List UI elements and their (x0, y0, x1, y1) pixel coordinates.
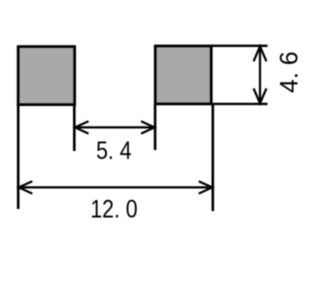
extension line, 4.6 top (from top edge of P2 right) (211, 45, 268, 47)
pad P2 (right land) (155, 46, 211, 104)
extension line, 5.4 left (from right edge of P1 down) (73, 104, 76, 151)
dimension line 4.6 with arrows (vertical) (254, 46, 267, 103)
pad P1 (left land) (18, 47, 75, 105)
dimension line 12.0 with arrows (19, 181, 212, 193)
dimension line 5.4 with arrows (75, 121, 155, 133)
svg-text:4. 6: 4. 6 (276, 51, 304, 93)
svg-text:5. 4: 5. 4 (96, 136, 132, 164)
extension line, 5.4 right (from left edge of P2 down) (154, 104, 157, 150)
svg-text:12. 0: 12. 0 (90, 195, 137, 223)
extension line, 4.6 bottom (from bottom edge of P2 right) (211, 103, 268, 105)
extension line, 12.0 right (from right edge of P2 down) (212, 104, 215, 211)
extension line, 12.0 left (from left edge of P1 down) (17, 104, 20, 209)
